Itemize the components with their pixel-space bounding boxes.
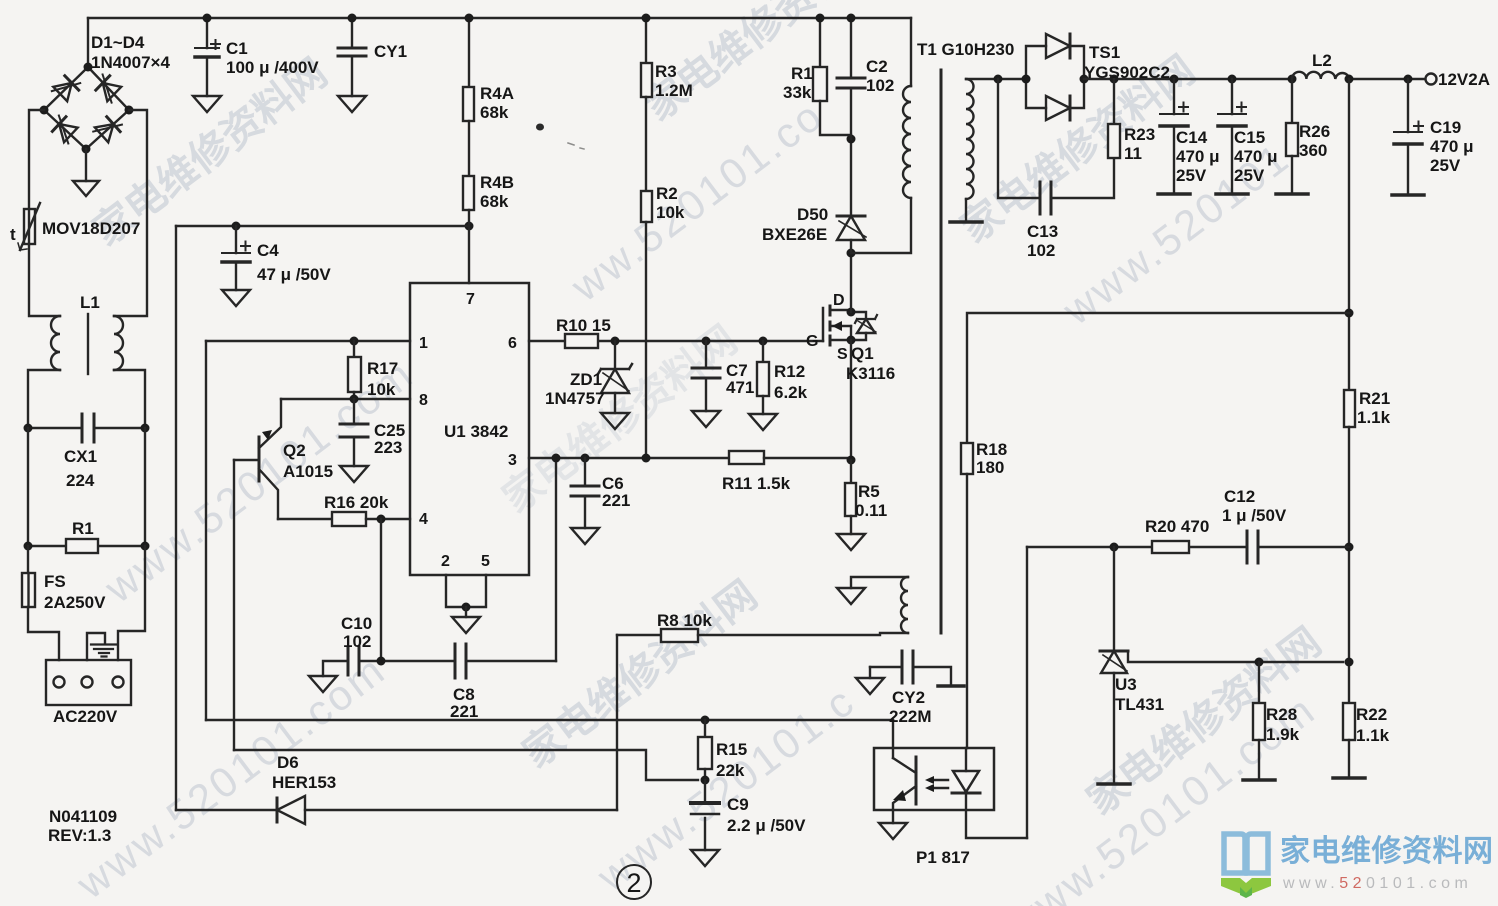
node Q1 drain <box>847 308 856 317</box>
wire bridge left to MOV <box>29 110 44 209</box>
svg-text:N041109: N041109 <box>49 807 117 826</box>
resistor R22 <box>1343 703 1355 778</box>
ground below C6 <box>571 528 599 544</box>
resistor R11 1.5k <box>729 451 851 464</box>
wire R4A to R4B <box>468 121 470 176</box>
svg-text:BXE26E: BXE26E <box>762 225 827 244</box>
svg-text:TS1: TS1 <box>1089 43 1120 62</box>
svg-text:3: 3 <box>508 452 517 469</box>
inductor L1 common mode choke <box>51 314 123 374</box>
node L2 right <box>1345 75 1354 84</box>
node C1 top <box>203 14 212 23</box>
resistor R17 <box>348 341 361 399</box>
capacitor C15 <box>1218 79 1246 194</box>
rectifier TS1 YGS902C2 <box>1026 34 1084 120</box>
node C14 top <box>1170 75 1179 84</box>
node bridge - <box>82 145 91 154</box>
svg-text:221: 221 <box>602 491 630 510</box>
svg-text:P1 817: P1 817 <box>916 848 970 867</box>
svg-text:U1 3842: U1 3842 <box>444 422 508 441</box>
node R4B bottom junction <box>465 222 474 231</box>
svg-text:R15: R15 <box>716 740 747 759</box>
resistor R12 <box>757 341 769 414</box>
resistor R8 <box>617 629 908 642</box>
svg-text:AC220V: AC220V <box>53 707 118 726</box>
ground bar below R22 <box>1333 776 1365 780</box>
svg-text:1 μ /50V: 1 μ /50V <box>1222 506 1287 525</box>
inductor L2 <box>1292 72 1349 79</box>
svg-text:R20 470: R20 470 <box>1145 517 1209 536</box>
logo 520101 bottom right <box>1221 834 1494 898</box>
svg-text:25V: 25V <box>1430 156 1461 175</box>
optocoupler P1 817 <box>874 748 1027 838</box>
svg-text:HER153: HER153 <box>272 773 336 792</box>
wire L2 node down to divider <box>1348 79 1350 390</box>
wire pin3 row <box>529 457 729 459</box>
capacitor C8 <box>455 644 556 678</box>
fuse FS 2A250V <box>22 546 35 607</box>
ground below R5 <box>837 534 865 550</box>
wire pin6 gate row <box>529 340 823 342</box>
node pins 2-5 <box>462 603 471 612</box>
node bridge + <box>84 63 93 72</box>
node C6 top <box>581 454 590 463</box>
capacitor CY2 <box>870 651 951 684</box>
node R26 top <box>1288 75 1297 84</box>
wire R2 down to pin3 row <box>645 222 647 458</box>
transformer T1 primary winding <box>851 18 911 253</box>
svg-text:2: 2 <box>441 553 450 570</box>
svg-text:R1: R1 <box>72 519 94 538</box>
svg-text:家电维修资料网: 家电维修资料网 <box>1280 835 1494 868</box>
svg-text:470 μ: 470 μ <box>1430 137 1474 156</box>
svg-text:R26: R26 <box>1299 122 1330 141</box>
node R10 right <box>611 337 620 346</box>
svg-text:2: 2 <box>626 868 641 898</box>
node C13 branch <box>994 75 1003 84</box>
svg-text:6.2k: 6.2k <box>774 383 808 402</box>
svg-text:REV:1.3: REV:1.3 <box>48 826 111 845</box>
resistor R28 <box>1253 662 1265 780</box>
ground bar below C19 <box>1392 193 1424 197</box>
diode D50 BXE26E <box>837 139 866 253</box>
resistor R2 <box>641 191 652 222</box>
node TS1 left <box>1022 75 1031 84</box>
svg-text:C12: C12 <box>1224 487 1255 506</box>
svg-text:R12: R12 <box>774 362 805 381</box>
resistor R4B <box>463 176 474 210</box>
svg-text:22k: 22k <box>716 761 745 780</box>
svg-text:R3: R3 <box>655 62 677 81</box>
node CY1 top <box>348 14 357 23</box>
svg-text:68k: 68k <box>480 103 509 122</box>
svg-text:5: 5 <box>481 553 490 570</box>
svg-text:R22: R22 <box>1356 705 1387 724</box>
resistor R23 <box>1108 79 1120 158</box>
wire secondary top rail <box>966 78 1026 80</box>
node C2 top <box>847 14 856 23</box>
wire L1 right down <box>114 370 145 428</box>
wire source down to R5 <box>850 340 852 460</box>
node C10 right / pin4 net <box>377 657 386 666</box>
chassis bar right of CY2 <box>938 684 964 688</box>
wire FS to terminal <box>28 607 59 660</box>
svg-text:25V: 25V <box>1176 166 1207 185</box>
resistor R21 <box>1344 390 1355 703</box>
ground bar below C14 <box>1158 192 1190 196</box>
capacitor C4 <box>222 226 250 290</box>
svg-text:A1015: A1015 <box>283 462 333 481</box>
resistor R26 <box>1286 79 1298 194</box>
svg-text:C4: C4 <box>257 241 279 260</box>
svg-text:1N4757: 1N4757 <box>545 389 605 408</box>
svg-text:MOV18D207: MOV18D207 <box>42 219 140 238</box>
wire rail Q2-base to R15 bottom (y=750) <box>234 750 698 780</box>
svg-text:CY1: CY1 <box>374 42 407 61</box>
ground bar below TL431 <box>1098 782 1130 786</box>
wire bridge top stub <box>87 18 89 67</box>
svg-text:360: 360 <box>1299 141 1327 160</box>
node C15 top <box>1228 75 1237 84</box>
capacitor C2 <box>837 18 865 139</box>
node pin3-C8 <box>552 454 561 463</box>
wire bridge right down <box>114 110 147 316</box>
wire VCC vertical long (to D6) <box>175 226 177 810</box>
wire MOV to L1 <box>29 244 60 316</box>
transformer T1 core <box>940 70 943 633</box>
capacitor C25 <box>340 399 368 466</box>
svg-text:10k: 10k <box>656 203 685 222</box>
svg-text:221: 221 <box>450 702 478 721</box>
ground below opto emitter <box>879 823 907 839</box>
svg-text:4: 4 <box>419 511 428 528</box>
wire VCC rail to C4 <box>176 225 469 227</box>
wire pin1 feedback vertical <box>205 341 207 720</box>
ground below C7 <box>692 411 720 427</box>
page number symbol 2 <box>617 865 651 899</box>
svg-text:G: G <box>806 333 818 350</box>
svg-text:ww.520101.co: ww.520101.co <box>562 91 832 311</box>
svg-text:t: t <box>10 225 16 244</box>
svg-text:C15: C15 <box>1234 128 1265 147</box>
svg-text:T1 G10H230: T1 G10H230 <box>917 40 1014 59</box>
svg-text:R16 20k: R16 20k <box>324 493 389 512</box>
svg-text:CY2: CY2 <box>892 688 925 707</box>
svg-text:C1: C1 <box>226 39 248 58</box>
ground bar below R28 <box>1243 778 1275 782</box>
node snubber top (C2/R1 bottom) <box>847 135 856 144</box>
svg-text:C9: C9 <box>727 795 749 814</box>
svg-text:224: 224 <box>66 471 95 490</box>
svg-text:TL431: TL431 <box>1115 695 1164 714</box>
wire R3 to R2 <box>645 97 647 191</box>
transformer T1 secondary winding <box>966 79 974 222</box>
svg-text:R8 10k: R8 10k <box>657 611 712 630</box>
node R15 top <box>701 716 710 725</box>
svg-text:471: 471 <box>726 378 754 397</box>
svg-text:Q1: Q1 <box>851 344 874 363</box>
svg-text:C14: C14 <box>1176 128 1208 147</box>
wire drain up to D50 <box>850 253 852 312</box>
svg-text:10k: 10k <box>367 380 396 399</box>
resistor R3 <box>641 18 652 97</box>
wire pins 2,5 join <box>446 575 486 607</box>
resistor R10 <box>565 334 598 348</box>
wire opto collector drop <box>892 720 894 758</box>
svg-text:D1~D4: D1~D4 <box>91 33 145 52</box>
svg-text:R11 1.5k: R11 1.5k <box>722 474 791 493</box>
zener ZD1 1N4757 <box>598 341 632 413</box>
svg-text:L2: L2 <box>1312 51 1332 70</box>
svg-text:R28: R28 <box>1266 705 1297 724</box>
node R3 top <box>642 14 651 23</box>
diode D6 HER153 <box>176 796 617 824</box>
wire R4B to U1 pin7 <box>468 210 470 283</box>
svg-text:R2: R2 <box>656 184 678 203</box>
node R1 left <box>24 542 33 551</box>
capacitor C14 <box>1160 79 1188 194</box>
wire pin8 row <box>281 398 410 400</box>
ground left of C10 <box>309 661 348 692</box>
svg-text:100 μ /400V: 100 μ /400V <box>226 58 319 77</box>
svg-text:1.1k: 1.1k <box>1357 408 1391 427</box>
bridge rectifier D1~D4 <box>44 67 129 149</box>
node R17 bottom / pin8 <box>350 395 359 404</box>
svg-text:102: 102 <box>1027 241 1055 260</box>
node C19 top <box>1404 75 1413 84</box>
node R23 top <box>1110 75 1119 84</box>
scan speck <box>536 124 544 131</box>
node R11 right / R5 top <box>847 456 856 465</box>
svg-text:R18: R18 <box>976 440 1007 459</box>
varistor MOV18D207 <box>18 203 40 250</box>
resistor R15 <box>698 720 712 780</box>
transformer T1 aux winding <box>851 577 908 633</box>
node R2 bottom / R11 left <box>642 454 651 463</box>
svg-text:102: 102 <box>866 76 894 95</box>
wire bridge bottom <box>85 149 87 181</box>
node Q1 source <box>847 336 856 345</box>
svg-text:R10 15: R10 15 <box>556 316 611 335</box>
node C12 right <box>1345 543 1354 552</box>
capacitor C9 <box>691 780 719 850</box>
node R1 right <box>141 542 150 551</box>
resistor R4A <box>463 87 474 121</box>
wire Q2 base down <box>233 460 235 750</box>
capacitor C19 <box>1394 79 1423 195</box>
wire R1 right to terminal <box>118 546 145 660</box>
svg-text:R4B: R4B <box>480 173 514 192</box>
node R1 top <box>816 14 825 23</box>
node snubber bottom <box>847 249 856 258</box>
ground bar below R26 <box>1276 192 1308 196</box>
svg-text:1.9k: 1.9k <box>1266 725 1300 744</box>
svg-text:222M: 222M <box>889 707 932 726</box>
node C7 top <box>702 337 711 346</box>
svg-text:www.520101.com: www.520101.com <box>1282 875 1472 892</box>
ground below C1 <box>193 96 221 112</box>
svg-text:25V: 25V <box>1234 166 1265 185</box>
svg-text:C19: C19 <box>1430 118 1461 137</box>
wire pin4 node down to C10 row <box>380 519 382 661</box>
svg-text:47 μ /50V: 47 μ /50V <box>257 265 331 284</box>
svg-text:www.520101.com: www.520101.com <box>67 645 394 906</box>
node R15 bottom <box>701 776 710 785</box>
ground bar below C15 <box>1216 192 1248 196</box>
resistor R20 <box>1152 541 1189 553</box>
svg-text:1.1k: 1.1k <box>1356 726 1390 745</box>
svg-text:R1: R1 <box>791 64 813 83</box>
capacitor CX1 <box>28 414 145 442</box>
capacitor C7 <box>692 341 720 411</box>
ground below ZD1 <box>601 413 629 429</box>
node C4 top <box>232 222 241 231</box>
svg-text:YGS902C2: YGS902C2 <box>1084 63 1170 82</box>
wire C8 up to pin3 row <box>555 458 557 661</box>
capacitor C12 <box>1247 531 1258 563</box>
svg-text:11: 11 <box>1124 144 1142 163</box>
ground below C9 <box>691 850 719 866</box>
node CX1 right <box>141 424 150 433</box>
svg-text:2.2 μ /50V: 2.2 μ /50V <box>727 816 806 835</box>
svg-text:S: S <box>837 346 848 363</box>
node bridge left <box>40 106 49 115</box>
svg-text:R4A: R4A <box>480 84 514 103</box>
wire fb rail to R18 <box>967 313 1349 443</box>
svg-text:U3: U3 <box>1115 675 1137 694</box>
svg-text:C13: C13 <box>1027 222 1058 241</box>
resistor R5 <box>845 460 856 534</box>
svg-text:12V2A: 12V2A <box>1438 70 1490 89</box>
svg-text:470 μ: 470 μ <box>1176 147 1220 166</box>
capacitor C13 <box>998 79 1114 214</box>
ground below pins 2,5 <box>452 617 480 633</box>
svg-text:33k: 33k <box>783 83 812 102</box>
svg-text:ZD1: ZD1 <box>570 370 602 389</box>
resistor R16 <box>332 512 410 526</box>
AC terminal block AC220V <box>46 660 131 705</box>
wire L1 left down <box>28 370 60 428</box>
transistor Q2 A1015 <box>234 399 281 519</box>
node R4 top <box>465 14 474 23</box>
resistor R18 <box>961 443 973 748</box>
wire top HV rail <box>88 17 911 19</box>
wire CX1 to R1 row <box>28 428 145 546</box>
resistor R1 (input) <box>28 539 145 553</box>
svg-text:7: 7 <box>466 291 475 308</box>
svg-text:6: 6 <box>508 335 517 352</box>
wire pin1 rail <box>206 340 410 342</box>
ground bar below secondary <box>950 220 982 224</box>
svg-text:2A250V: 2A250V <box>44 593 106 612</box>
op-amp U1 3842 (PWM IC block) <box>410 283 529 575</box>
svg-text:68k: 68k <box>480 192 509 211</box>
svg-text:470 μ: 470 μ <box>1234 147 1278 166</box>
node R16 right / pin4 <box>377 515 386 524</box>
svg-text:1N4007×4: 1N4007×4 <box>91 53 170 72</box>
node bridge right <box>125 106 134 115</box>
resistor R1 33k <box>813 18 851 135</box>
node fb top <box>1345 309 1354 318</box>
svg-text:C10: C10 <box>341 614 372 633</box>
earth symbol at AC input <box>87 633 116 660</box>
svg-text:R21: R21 <box>1359 389 1390 408</box>
node ref R22 <box>1345 658 1354 667</box>
node CX1 left <box>24 424 33 433</box>
capacitor C1 <box>195 18 220 96</box>
svg-text:C2: C2 <box>866 57 888 76</box>
ground left of CY2 <box>856 678 884 694</box>
svg-text:1: 1 <box>419 335 428 352</box>
wire long rail compensation (y=720) <box>206 719 893 721</box>
node TL431 cathode <box>1110 543 1119 552</box>
node TS1 right <box>1080 75 1089 84</box>
svg-text:223: 223 <box>374 438 402 457</box>
capacitor C10 <box>348 647 455 675</box>
node R17 top <box>350 337 359 346</box>
wire Q2 collector to R16 <box>278 518 332 520</box>
svg-text:D50: D50 <box>797 205 828 224</box>
node R12 top <box>759 337 768 346</box>
svg-text:R17: R17 <box>367 359 398 378</box>
svg-text:102: 102 <box>343 632 371 651</box>
svg-text:D: D <box>833 292 845 309</box>
ground at aux winding top <box>837 588 865 604</box>
node ref R28 <box>1255 658 1264 667</box>
capacitor C6 <box>571 458 599 528</box>
ground below C4 <box>222 290 250 306</box>
transistor Q1 K3116 MOSFET <box>823 306 877 345</box>
wire output rail <box>1084 78 1425 80</box>
ground below bridge <box>73 181 99 196</box>
capacitor CY1 <box>338 18 366 96</box>
svg-text:R23: R23 <box>1124 125 1155 144</box>
svg-text:R5: R5 <box>858 482 880 501</box>
wire D6 to R8 vertical <box>616 635 618 810</box>
shunt regulator U3 TL431 <box>1100 547 1343 784</box>
output terminal 12V2A <box>1426 74 1437 85</box>
wire R20-C12 row <box>1027 546 1349 548</box>
svg-text:0.11: 0.11 <box>855 501 887 520</box>
svg-text:180: 180 <box>976 458 1004 477</box>
svg-text:D6: D6 <box>277 753 299 772</box>
svg-text:FS: FS <box>44 572 66 591</box>
ground below R12 <box>749 414 777 430</box>
svg-text:CX1: CX1 <box>64 447 97 466</box>
ground below C25 <box>340 466 368 482</box>
svg-text:Q2: Q2 <box>283 441 306 460</box>
svg-text:1.2M: 1.2M <box>655 81 693 100</box>
svg-text:L1: L1 <box>80 293 100 312</box>
svg-text:8: 8 <box>419 392 428 409</box>
svg-text:K3116: K3116 <box>846 364 895 383</box>
wire R4 branch from rail <box>468 18 470 87</box>
ground below CY1 <box>338 96 366 112</box>
wire opto LED cathode up to R20 node <box>1026 547 1028 838</box>
